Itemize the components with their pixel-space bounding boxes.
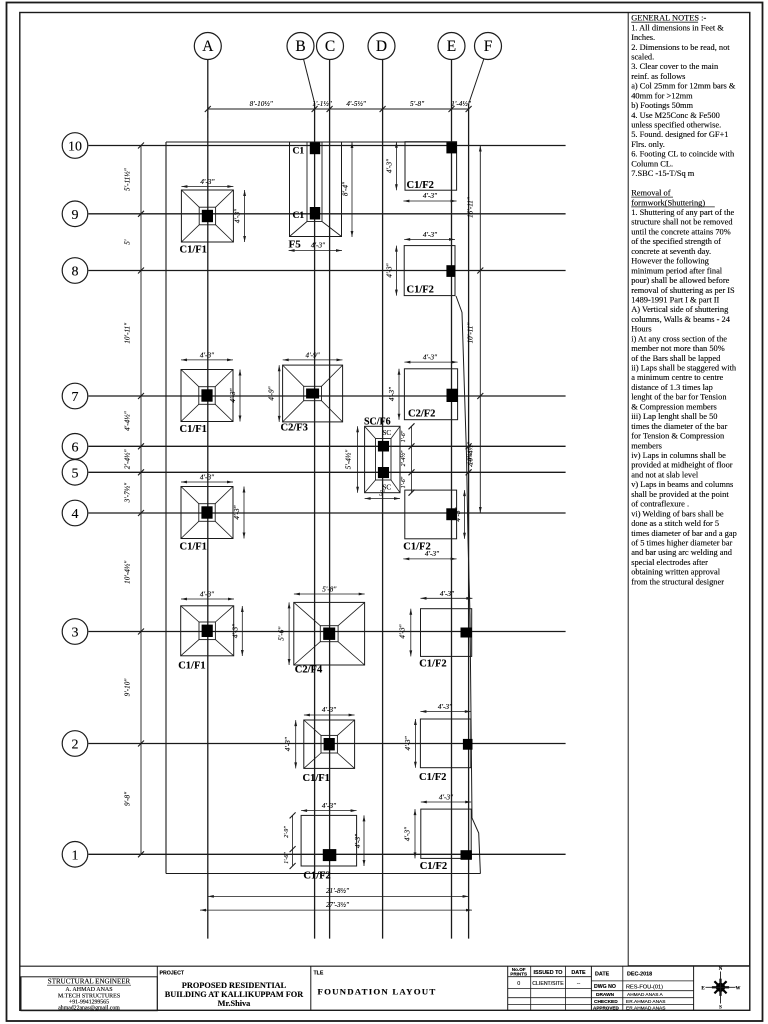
svg-text:N: N [719, 967, 723, 972]
small dimension 2'-4 at F line rows 6-5 [466, 443, 474, 475]
svg-text:5': 5' [124, 239, 132, 245]
svg-text:distance of 1.3 times lap: distance of 1.3 times lap [631, 383, 713, 392]
svg-text:reinf. as follows: reinf. as follows [631, 72, 685, 81]
svg-text:5'-6": 5'-6" [278, 626, 286, 641]
svg-text:C1/F1: C1/F1 [303, 773, 330, 784]
svg-text:27'-3½": 27'-3½" [326, 901, 350, 909]
svg-text:4'-3": 4'-3" [403, 826, 411, 841]
svg-text:4'-3": 4'-3" [399, 623, 407, 638]
svg-text:concrete at seventh day.: concrete at seventh day. [631, 247, 711, 256]
svg-text:4'-3": 4'-3" [438, 703, 453, 711]
svg-text:GENERAL NOTES :-: GENERAL NOTES :- [631, 14, 706, 23]
svg-text:from the structural designer: from the structural designer [631, 577, 724, 586]
svg-text:S: S [719, 1006, 722, 1011]
svg-text:10'-11": 10'-11" [124, 322, 132, 344]
svg-text:unless specified otherwise.: unless specified otherwise. [631, 121, 721, 130]
svg-text:5'-11½": 5'-11½" [124, 167, 132, 191]
svg-text:4'-3": 4'-3" [385, 158, 393, 173]
dimension 3' below F6 [365, 490, 400, 500]
svg-text:STRUCTURAL ENGINEER: STRUCTURAL ENGINEER [48, 978, 131, 986]
svg-text:A: A [202, 38, 214, 55]
svg-text:i) At any cross section of the: i) At any cross section of the [631, 334, 727, 343]
footing C2/F4 at C3 [294, 602, 365, 675]
svg-text:4'-3": 4'-3" [385, 262, 393, 277]
svg-text:4'-3": 4'-3" [440, 590, 455, 598]
footing SC/F6 outline at D6-D5 [365, 426, 400, 492]
svg-text:Removal of: Removal of [631, 189, 671, 198]
column SC black square at D6 [378, 441, 389, 452]
svg-text:10'-4½": 10'-4½" [124, 560, 132, 584]
svg-text:member not more than 50%: member not more than 50% [631, 344, 725, 353]
svg-text:DEC-2018: DEC-2018 [627, 972, 652, 978]
svg-text:removal of shuttering as per: removal of shuttering as per IS [631, 286, 735, 295]
dimension 4'-3 above E7 footing [404, 354, 457, 364]
grid line B leader from bubble [304, 59, 315, 103]
column C1 black square at B10 [310, 143, 320, 155]
svg-text:DATE: DATE [571, 970, 586, 976]
svg-text:F5: F5 [289, 239, 302, 251]
footing C1/F1 at A4 [180, 487, 234, 553]
svg-text:of 5 times higher diameter bar: of 5 times higher diameter bar [631, 538, 732, 547]
svg-text:9: 9 [72, 208, 79, 223]
grid bubble E [438, 33, 465, 60]
svg-text:obtaining written approval: obtaining written approval [631, 568, 721, 577]
svg-text:RES-FOU-(01): RES-FOU-(01) [626, 985, 663, 991]
svg-text:10'-11": 10'-11" [467, 322, 475, 344]
svg-text:1'-6": 1'-6" [401, 476, 407, 488]
svg-text:1489-1991 Part I & part II: 1489-1991 Part I & part II [631, 295, 719, 304]
dimension 4'-3 right of A7 footing [229, 370, 241, 422]
svg-text:DWG NO: DWG NO [594, 984, 616, 990]
grid line E vertical [451, 60, 453, 939]
title cell divider [310, 966, 312, 1010]
svg-text:Inches.: Inches. [631, 33, 655, 42]
svg-text:9'-10": 9'-10" [124, 678, 132, 697]
dimension 4'-3 right of A3 footing [232, 606, 244, 656]
svg-text:4'-3": 4'-3" [200, 178, 215, 186]
grid line A vertical [207, 60, 209, 939]
svg-text:3: 3 [72, 626, 79, 641]
svg-text:a minimum centre to centre: a minimum centre to centre [631, 373, 723, 382]
svg-text:a) Col 25mm for 12mm bars &: a) Col 25mm for 12mm bars & [631, 82, 736, 91]
svg-text:PROPOSED RESIDENTIAL: PROPOSED RESIDENTIAL [182, 981, 287, 990]
grid line F leader from bubble [469, 59, 484, 105]
grid bubble 9 [62, 201, 88, 227]
dimension 4'-3 left of E8 footing [385, 246, 397, 296]
svg-text:10: 10 [68, 140, 82, 155]
svg-text:A) Vertical side of shuttering: A) Vertical side of shuttering [631, 305, 729, 314]
svg-text:4'-3": 4'-3" [284, 736, 292, 751]
svg-text:done as a stitch weld for 5: done as a stitch weld for 5 [631, 519, 719, 528]
svg-text:APPROVED: APPROVED [593, 1006, 619, 1011]
svg-text:C1/F2: C1/F2 [420, 861, 447, 872]
building outline top wall [166, 141, 457, 143]
svg-text:ISSUED TO: ISSUED TO [534, 970, 563, 976]
svg-text:provided at midheight of floor: provided at midheight of floor [631, 461, 733, 470]
svg-text:7: 7 [72, 390, 79, 405]
svg-text:C1/F2: C1/F2 [407, 180, 434, 191]
dimension 4'-3 below E4 footing [403, 550, 456, 560]
svg-text:& Compression members: & Compression members [631, 402, 717, 411]
svg-text:4'-3": 4'-3" [233, 504, 241, 519]
svg-text:Hours: Hours [631, 325, 651, 334]
dimension 4'-3 above A3 footing [181, 591, 234, 601]
svg-text:9'-8": 9'-8" [124, 791, 132, 806]
svg-text:lenght of the bar for Tensio: lenght of the bar for Tension [631, 393, 727, 402]
svg-text:and bar using arc welding and: and bar using arc welding and [631, 548, 733, 557]
svg-text:4'-3": 4'-3" [423, 354, 438, 362]
svg-text:8'-10½": 8'-10½" [250, 100, 274, 108]
top dimension line A-F [205, 100, 472, 118]
grid bubble 10 [62, 133, 88, 159]
dimension 4'-3 above E8 footing [404, 231, 455, 241]
building outline bottom wall [166, 873, 481, 875]
svg-text:iii) Lap lenght shall be 50: iii) Lap lenght shall be 50 [631, 412, 717, 421]
svg-text:4'-4½": 4'-4½" [124, 410, 132, 431]
svg-text:8'-4": 8'-4" [342, 181, 350, 196]
svg-text:SC/F6: SC/F6 [364, 417, 391, 428]
svg-text:4'-9": 4'-9" [306, 351, 321, 359]
dimension 4'-3 above C1-row1 footing [301, 802, 357, 812]
footing F5 outline (combined B10-B9) [290, 142, 342, 237]
north arrow box [693, 966, 695, 1010]
svg-text:BUILDING AT KALLIKUPPAM FOR: BUILDING AT KALLIKUPPAM FOR [165, 990, 305, 999]
grid bubble C [317, 33, 344, 60]
title block engineer box [21, 977, 157, 1011]
dimension 4'-3 right of A4 footing [233, 487, 245, 539]
svg-text:4'-3": 4'-3" [232, 623, 240, 638]
dimension 4'-3 above A7 footing [181, 351, 233, 361]
dimension 4'-3 above C2 footing [304, 706, 355, 717]
svg-text:3': 3' [378, 490, 385, 498]
footing C1/F2 at E1 [420, 809, 472, 872]
dimension chain left of C1-row1 footing [284, 812, 295, 869]
bottom dimension 21'-8 [208, 887, 469, 898]
svg-text:5'-8": 5'-8" [410, 100, 425, 108]
footing C1/F2 at C1-row1 [301, 815, 357, 881]
svg-text:C1/F1: C1/F1 [178, 661, 205, 672]
svg-text:4'-3": 4'-3" [425, 550, 440, 558]
dimension 4'-3 above E1 footing [421, 794, 471, 804]
svg-text:shall be provided at the point: shall be provided at the point [631, 490, 729, 499]
svg-text:of the specified strength of: of the specified strength of [631, 237, 721, 246]
grid bubble F [475, 33, 502, 60]
dimension 4'-3 below F5 [289, 242, 342, 252]
svg-text:columns, Walls & beams - 24: columns, Walls & beams - 24 [631, 315, 731, 324]
title block top line [20, 965, 750, 967]
svg-text:ahmad22anas@gmail.com: ahmad22anas@gmail.com [58, 1005, 120, 1011]
svg-text:C2/F3: C2/F3 [281, 423, 308, 434]
general notes text [631, 14, 737, 587]
svg-text:3'-7½": 3'-7½" [124, 482, 132, 504]
dimension 4'-3 above A9 footing [181, 178, 233, 188]
grid line 10 horizontal [89, 145, 566, 147]
svg-text:4'-3": 4'-3" [439, 794, 454, 802]
svg-text:5: 5 [72, 466, 79, 481]
svg-text:0: 0 [517, 981, 520, 987]
dimension 4'-3 above A4 footing [181, 474, 233, 484]
dimension 5'-8 above C3 footing [294, 586, 365, 596]
svg-text:7.SBC -15-T/Sq m: 7.SBC -15-T/Sq m [631, 169, 695, 178]
grid bubble 8 [62, 258, 88, 284]
project text [165, 981, 305, 1008]
grid bubble 1 [62, 842, 88, 868]
footing C1/F1 at A9 [180, 190, 234, 256]
svg-text:4'-3": 4'-3" [423, 231, 438, 239]
svg-text:C2/F2: C2/F2 [408, 409, 435, 420]
svg-text:1: 1 [72, 848, 79, 863]
svg-text:until the concrete attains 70: until the concrete attains 70% [631, 227, 731, 236]
right dimension chain rows 10-4 [467, 146, 484, 514]
svg-text:4'-3": 4'-3" [454, 506, 462, 521]
svg-text:C1/F1: C1/F1 [180, 245, 207, 256]
svg-text:4'-3": 4'-3" [388, 386, 396, 401]
grid line 8 horizontal [89, 270, 566, 272]
svg-text:for Tension & Compression: for Tension & Compression [631, 432, 725, 441]
dimension 4'-3 left of E10 footing [385, 142, 397, 191]
grid line 7 horizontal [89, 395, 566, 397]
grid line 6 horizontal [89, 445, 566, 447]
grid line D vertical [382, 60, 384, 939]
column SC black square at D5 [378, 467, 389, 478]
grid bubble 4 [62, 500, 88, 526]
svg-text:b) Footings 50mm: b) Footings 50mm [631, 101, 693, 110]
svg-text:1. All dimensions in Feet &: 1. All dimensions in Feet & [631, 23, 724, 32]
svg-text:E: E [447, 38, 456, 55]
grid line 1 horizontal [89, 853, 566, 855]
footing C1/F2 at E3 [419, 609, 472, 670]
svg-text:of contraflexure .: of contraflexure . [631, 500, 689, 509]
general notes panel box [628, 13, 749, 966]
svg-text:2: 2 [72, 738, 79, 753]
svg-text:iv) Laps in columns shall be: iv) Laps in columns shall be [631, 451, 726, 460]
svg-text:members: members [631, 441, 662, 450]
svg-text:A. AHMAD ANAS: A. AHMAD ANAS [65, 987, 112, 993]
footing C1/F1 at C2 [303, 720, 355, 784]
svg-text:and not at slab level: and not at slab level [631, 470, 699, 479]
grid line 9 horizontal [89, 213, 566, 215]
left dimension chain rows 10-1 [124, 143, 145, 858]
footing C1/F2 at E10 [405, 142, 457, 191]
dimension 4'-9 left of B7 footing [268, 365, 281, 422]
svg-text:1'-1½": 1'-1½" [312, 100, 333, 108]
dimension 4'-3 right of E4 footing [454, 490, 466, 539]
project cell divider [156, 966, 158, 1010]
svg-text:4'-3": 4'-3" [311, 242, 326, 250]
svg-text:structure shall not be removed: structure shall not be removed [631, 218, 733, 227]
dimension 4'-3 left of E7 footing [388, 369, 400, 420]
svg-text:4'-3": 4'-3" [354, 833, 362, 848]
footing C1/F2 at E8 [404, 246, 455, 296]
svg-text:Mr.Shiva: Mr.Shiva [218, 999, 252, 1008]
grid line F vertical [468, 104, 470, 939]
north compass rose [701, 967, 740, 1011]
svg-text:4'-3": 4'-3" [404, 735, 412, 750]
footing C1/F2 at E4 [403, 490, 457, 552]
svg-text:B: B [295, 38, 305, 55]
svg-text:SC: SC [383, 429, 392, 437]
svg-text:C2/F4: C2/F4 [295, 665, 323, 676]
svg-text:5. Found. designed for GF+1: 5. Found. designed for GF+1 [631, 130, 728, 139]
svg-text:formwork(Shuttering): formwork(Shuttering) [631, 198, 705, 207]
footing C2/F2 at E7 [404, 369, 458, 420]
svg-text:4'-3": 4'-3" [200, 351, 215, 359]
svg-text:TLE: TLE [314, 970, 324, 976]
svg-text:of the Bars shall be lapped: of the Bars shall be lapped [631, 354, 721, 363]
dimension 4'-3 above E3 footing [421, 590, 473, 600]
svg-text:minimum period after final: minimum period after final [631, 266, 723, 275]
dimension 8'-4 right of F5 [342, 142, 354, 237]
building outline left wall [165, 142, 167, 874]
prints table [508, 966, 592, 1010]
engineer box text [47, 978, 131, 1012]
svg-text:4: 4 [72, 507, 79, 522]
grid bubble 2 [62, 731, 88, 757]
svg-text:CLIENT/SITE: CLIENT/SITE [532, 981, 564, 987]
dimension 5'-4 left of F6 [345, 426, 360, 492]
svg-text:scaled.: scaled. [631, 52, 654, 61]
svg-text:times diameter of bar and a ga: times diameter of bar and a gap [631, 529, 737, 538]
svg-text:2. Dimensions to be read, not: 2. Dimensions to be read, not [631, 43, 730, 52]
svg-text:C1/F2: C1/F2 [419, 772, 446, 783]
svg-text:4. Use M25Conc & Fe500: 4. Use M25Conc & Fe500 [631, 111, 720, 120]
dimension chain right of F6 [400, 423, 414, 495]
column C1 black square at B9 [310, 207, 320, 220]
svg-text:16'-11": 16'-11" [467, 196, 475, 218]
svg-text:1. Shuttering of any part of t: 1. Shuttering of any part of the [631, 208, 734, 217]
svg-text:C1: C1 [293, 147, 305, 157]
grid line 2 horizontal [89, 743, 566, 745]
dimension 4'-3 below E10 footing [403, 192, 456, 202]
svg-text:6. Footing CL to coincide with: 6. Footing CL to coincide with [631, 150, 735, 159]
grid line 5 horizontal [89, 471, 566, 473]
dimension 4'-3 right of A9 footing [234, 190, 247, 242]
svg-text:8: 8 [72, 265, 79, 280]
dimension 5'-6 left of C3 footing [278, 602, 291, 665]
svg-text:C1: C1 [293, 211, 305, 221]
footing C1/F2 at E2 [419, 719, 473, 783]
bottom dimension 27'-3 [200, 901, 472, 912]
svg-text:CHECKED: CHECKED [594, 999, 618, 1005]
svg-text:C1/F2: C1/F2 [419, 659, 446, 670]
grid bubble D [368, 33, 395, 60]
svg-text:6: 6 [72, 440, 79, 455]
dimension 4'-3 left of E1 footing [403, 809, 416, 858]
svg-text:DRAWN: DRAWN [596, 992, 615, 998]
svg-text:vi) Welding of bars shall be: vi) Welding of bars shall be [631, 509, 724, 518]
svg-text:AHMAD ANAS A: AHMAD ANAS A [627, 992, 664, 998]
svg-text:2'-9": 2'-9" [284, 826, 290, 838]
dimension 4'-9 above B7 footing [283, 351, 343, 361]
dimension 4'-3 left of E2 footing [404, 719, 417, 768]
dimension 4'-3 left of C2 footing [284, 720, 297, 768]
svg-text:3. Clear cover to the main: 3. Clear cover to the main [631, 62, 719, 71]
footing C1/F1 at A3 [178, 606, 234, 672]
svg-text:Column CL.: Column CL. [631, 159, 673, 168]
svg-text:4'-3": 4'-3" [322, 706, 337, 714]
svg-text:ER.AHMAD ANAS: ER.AHMAD ANAS [626, 1006, 665, 1012]
svg-text:PROJECT: PROJECT [160, 970, 185, 976]
dimension 4'-3 right of C1-row1 footing [354, 815, 366, 866]
building outline right skew wall [456, 296, 480, 874]
svg-text:W: W [736, 986, 741, 991]
svg-text:v) Laps in beams and columns: v) Laps in beams and columns [631, 480, 733, 489]
grid line 3 horizontal [89, 631, 566, 633]
grid bubble 6 [62, 434, 88, 460]
svg-text:Flrs. only.: Flrs. only. [631, 140, 665, 149]
svg-text:4'-3": 4'-3" [229, 387, 237, 402]
svg-text:FOUNDATION LAYOUT: FOUNDATION LAYOUT [318, 987, 437, 997]
svg-text:4'-3": 4'-3" [423, 192, 438, 200]
svg-text:5'-4½": 5'-4½" [345, 449, 353, 470]
svg-text:4'-9": 4'-9" [268, 385, 276, 400]
grid bubble 7 [62, 383, 88, 409]
svg-text:PRINTS: PRINTS [510, 972, 527, 977]
svg-text:times the diameter of the ba: times the diameter of the bar [631, 422, 727, 431]
svg-text:4'-3": 4'-3" [234, 208, 242, 223]
svg-text:1'-6": 1'-6" [284, 852, 290, 864]
svg-text:5'-8": 5'-8" [322, 586, 337, 594]
svg-text:1'-6": 1'-6" [401, 430, 407, 442]
svg-text:2'-4½": 2'-4½" [400, 450, 407, 466]
svg-text:4'-3": 4'-3" [200, 591, 215, 599]
dwg info table [591, 966, 693, 1011]
svg-text:21'-8½": 21'-8½" [326, 887, 350, 895]
dimension 4'-3 left of E3 footing [399, 609, 413, 657]
svg-text:F: F [484, 38, 493, 55]
svg-text:2'-4½": 2'-4½" [467, 451, 474, 467]
svg-text:4'-3": 4'-3" [322, 802, 337, 810]
svg-text:40mm for >12mm: 40mm for >12mm [631, 91, 693, 100]
grid bubble 3 [62, 619, 88, 645]
svg-text:C1/F1: C1/F1 [180, 424, 207, 435]
svg-text:DATE: DATE [595, 972, 610, 978]
svg-text:ER.AHMAD ANAS: ER.AHMAD ANAS [626, 999, 665, 1005]
svg-text:4'-5½": 4'-5½" [346, 100, 367, 108]
svg-text:ii) Laps shall be staggered wi: ii) Laps shall be staggered with [631, 364, 737, 373]
grid bubble A [194, 33, 221, 60]
grid line 4 horizontal [89, 512, 566, 514]
svg-text:4'-3": 4'-3" [200, 474, 215, 482]
svg-text:special electrodes after: special electrodes after [631, 558, 708, 567]
svg-text:2'-4½": 2'-4½" [124, 449, 132, 470]
svg-text:C1/F1: C1/F1 [180, 542, 207, 553]
footing C1/F1 at A7 [180, 370, 234, 436]
grid bubble 5 [62, 460, 88, 486]
grid bubble B [287, 33, 314, 60]
svg-text:C: C [325, 38, 335, 55]
svg-text:D: D [376, 38, 387, 55]
svg-text:pour) shall be allowed before: pour) shall be allowed before [631, 276, 729, 285]
svg-text:C1/F2: C1/F2 [407, 285, 434, 296]
dimension 4'-3 above E2 footing [420, 703, 470, 713]
svg-text:--: -- [577, 981, 581, 987]
grid line C vertical [329, 60, 331, 939]
svg-text:C1/F2: C1/F2 [303, 871, 330, 882]
svg-text:However the following: However the following [631, 257, 709, 266]
grid line B vertical [314, 103, 316, 939]
footing C2/F3 at B7 [281, 365, 343, 433]
